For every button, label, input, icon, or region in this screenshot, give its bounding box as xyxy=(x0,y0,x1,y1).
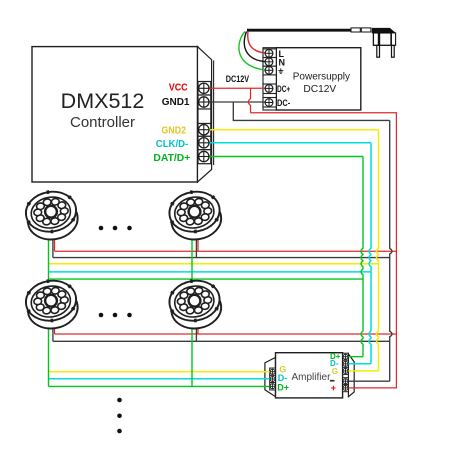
wire: GND1 black from DMX to DC- xyxy=(204,101,269,103)
wire: mains neutral black xyxy=(244,32,268,62)
DMX terminal strip xyxy=(198,82,211,164)
amp right label minus xyxy=(330,380,335,382)
mains plug xyxy=(372,28,396,57)
LED module M1 xyxy=(23,186,81,243)
ellipsis dots row1 xyxy=(99,226,132,231)
earth symbol xyxy=(278,68,283,73)
amplifier U2 body xyxy=(265,353,354,398)
wire: DAT/D+ green from DMX to amplifier D+ xyxy=(204,156,363,158)
wire: amplifier output cyan bus xyxy=(49,378,273,380)
amplifier screws right D+ D- G - + xyxy=(343,354,348,359)
wire: module M3 red lead xyxy=(54,323,56,334)
svg-text:DC-: DC- xyxy=(277,98,290,108)
wire: GND2 yellow from DMX to amplifier G xyxy=(204,129,379,131)
power supply PSU body xyxy=(263,48,361,110)
LED module M2 xyxy=(166,186,224,243)
amplifier screws left G D- D+ xyxy=(270,369,275,374)
DMX screws VCC GND1 GND2 CLK DAT xyxy=(199,83,209,93)
wire: mains earth green xyxy=(239,32,269,71)
wire: +12V red feeder branch to right riser and amplifier + xyxy=(248,88,250,112)
wire: row2 black bus xyxy=(53,340,390,342)
svg-text:Amplifier: Amplifier xyxy=(292,372,332,383)
wire: module M4 green lead xyxy=(191,323,193,386)
wire: module M4 red lead xyxy=(197,323,199,334)
svg-text:Controller: Controller xyxy=(70,114,135,131)
svg-text:N: N xyxy=(279,58,286,68)
ellipsis dots row2 xyxy=(99,313,132,318)
svg-text:GND2: GND2 xyxy=(161,126,186,137)
wire: module M2 red lead xyxy=(197,234,199,251)
svg-text:+: + xyxy=(331,383,336,393)
DMX512 controller U1 body xyxy=(32,47,214,182)
PSU screws L N earth DC+ DC- xyxy=(265,49,273,57)
wire: module M3 black lead xyxy=(52,323,54,341)
svg-text:CLK/D-: CLK/D- xyxy=(156,139,188,150)
svg-text:G: G xyxy=(332,367,338,376)
svg-text:DC12V: DC12V xyxy=(226,74,249,84)
wire: row1 green bus xyxy=(49,278,364,280)
wire: amplifier output green bus xyxy=(49,385,273,387)
svg-text:GND1: GND1 xyxy=(162,97,190,108)
wire: mains live red xyxy=(248,32,269,54)
svg-text:DAT/D+: DAT/D+ xyxy=(153,153,190,164)
wire: module M1 red lead xyxy=(54,234,56,251)
svg-text:D+: D+ xyxy=(277,383,289,393)
wire: row1 yellow bus xyxy=(49,263,379,265)
svg-text:DC12V: DC12V xyxy=(303,84,336,95)
mains cable xyxy=(247,28,371,32)
vertical ellipsis dots xyxy=(117,398,122,434)
wire: module M3 green lead xyxy=(48,323,50,386)
wire: CLK/D- cyan from DMX to amplifier D- xyxy=(204,142,371,144)
svg-text:VCC: VCC xyxy=(169,83,188,94)
svg-text:DMX512: DMX512 xyxy=(61,89,145,113)
wire: row1 black bus xyxy=(53,257,390,259)
LED module M3 xyxy=(23,275,81,332)
LED module M4 xyxy=(166,275,224,332)
wire: module M1 green lead xyxy=(48,234,50,279)
wire: amplifier output yellow bus xyxy=(49,371,273,373)
wire: GND black feeder branch to right riser and amplifier - xyxy=(233,102,389,120)
wire: module M4 black lead xyxy=(195,323,197,341)
wire: VCC red from DMX to DC+ xyxy=(204,87,269,89)
wire: module M1 black lead xyxy=(52,234,54,258)
wire: module M2 black lead xyxy=(195,234,197,258)
wire: row1 cyan bus xyxy=(49,271,372,273)
svg-text:DC+: DC+ xyxy=(277,84,290,94)
wire: row2 red bus xyxy=(55,333,397,335)
svg-text:Powersupply: Powersupply xyxy=(293,72,350,83)
wire: row1 red bus xyxy=(55,250,397,252)
wire: module M2 green lead xyxy=(191,234,193,279)
